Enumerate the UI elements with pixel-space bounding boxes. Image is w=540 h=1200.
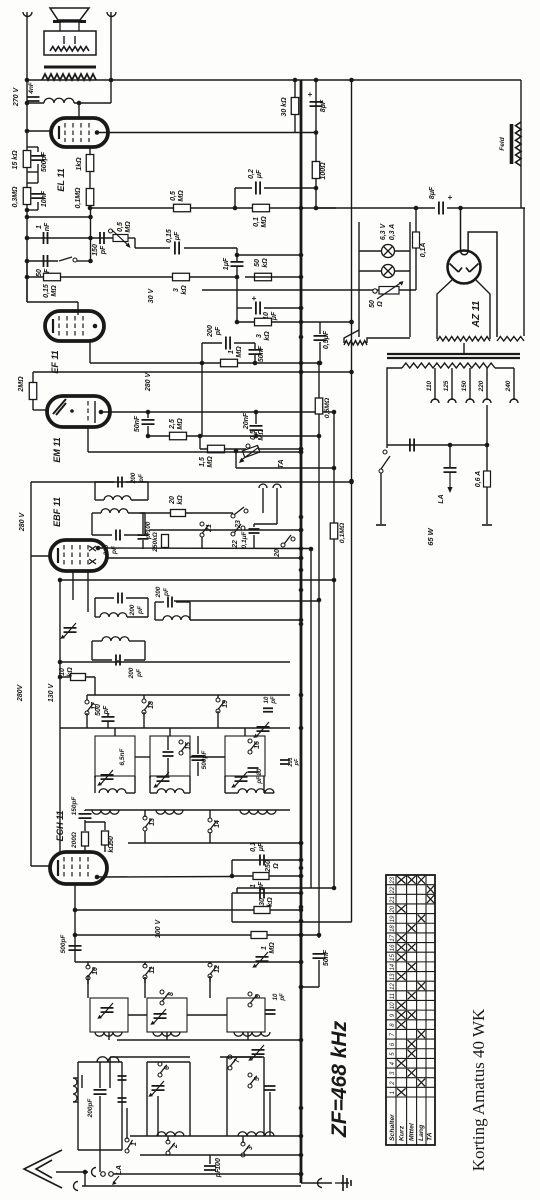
wire 30k up (294, 80, 296, 98)
node bus 558 (299, 556, 304, 561)
output transformer core (44, 66, 96, 69)
trimmer det (256, 957, 269, 961)
node g2bus (299, 206, 304, 211)
wire row277 (27, 276, 237, 278)
wire ant stub (56, 1171, 88, 1173)
wire 30k dn (294, 115, 296, 133)
resistor 100ohm (312, 162, 320, 179)
coupling hook ant (92, 1168, 97, 1177)
wire px202 (201, 343, 203, 436)
tube EBF11 (50, 540, 107, 571)
frame C top2 (227, 1056, 264, 1058)
svg-text:2: 2 (172, 1144, 179, 1149)
wire box1 up (114, 728, 116, 736)
output transformer box (44, 31, 96, 55)
wire g2 line (90, 207, 336, 209)
wire 200 dn (84, 846, 86, 852)
svg-text:ZF=468 kHz: ZF=468 kHz (328, 1020, 351, 1138)
node r363b (253, 361, 258, 366)
node grid EL11 (25, 129, 30, 134)
trimmer ifb (63, 623, 76, 638)
winding heater AZ (497, 337, 524, 342)
ifta u2 topR (128, 512, 145, 514)
svg-text:22: 22 (390, 886, 396, 894)
table switch grid (386, 875, 435, 1145)
svg-text:13: 13 (390, 973, 396, 980)
node mains b (448, 443, 453, 448)
node bus 868 (299, 866, 304, 871)
jack TA (259, 484, 281, 488)
svg-text:kΩ: kΩ (267, 897, 274, 907)
capacitor 6.5nF (163, 752, 174, 756)
resistor 3k b (255, 318, 272, 326)
ifb u1 botL (95, 616, 100, 618)
node bus 695 (299, 693, 304, 698)
wire 65 up (167, 736, 169, 750)
AZ11 anodes (450, 264, 479, 273)
node r449b (234, 449, 239, 454)
resistor 0.5M on B (315, 398, 323, 414)
node bus 843 (299, 841, 304, 846)
resistor 20k (171, 510, 186, 517)
node r412 (332, 410, 337, 415)
table X marks (397, 876, 434, 1096)
capacitor 100pF b (138, 535, 149, 539)
antenna (24, 1150, 62, 1188)
coil osc2 (153, 1032, 180, 1036)
svg-text:kΩ: kΩ (108, 843, 115, 853)
ifb u2 topR (129, 640, 145, 642)
box bandA3 (225, 736, 265, 776)
svg-text:pF: pF (257, 776, 263, 785)
wire 150p dn (84, 820, 86, 831)
node bus 935 (299, 933, 304, 938)
wire choke to pin (74, 102, 111, 104)
fuse 0.1A (413, 232, 420, 248)
svg-text:18: 18 (148, 701, 155, 709)
terminal tap 110 (431, 399, 439, 403)
svg-text:20: 20 (169, 496, 176, 505)
wire prim left (387, 368, 402, 448)
coil anode choke (44, 98, 74, 103)
wire sw2 up (167, 1136, 169, 1141)
wire 100pF up (209, 1155, 211, 1164)
rail A2 (60, 727, 290, 729)
node r888 (332, 886, 337, 891)
trimmer osc1 (101, 1008, 114, 1012)
svg-text:+: + (308, 90, 313, 99)
svg-text:pF: pF (215, 326, 222, 336)
wire mains L (380, 473, 382, 524)
resistor 15k (23, 151, 31, 168)
trimmer ant4 (152, 1086, 165, 1090)
coil ifta1 (104, 496, 131, 500)
tube EL11 (51, 118, 108, 147)
svg-text:μF: μF (258, 842, 265, 852)
wire row888 (237, 887, 334, 889)
wire row248 (135, 247, 170, 249)
switch 23 (231, 514, 235, 518)
svg-text:21: 21 (206, 524, 213, 533)
switch 2 (166, 1140, 170, 1144)
EBF11 diode marks (89, 546, 96, 564)
ifta u2 bot2 (124, 534, 145, 536)
svg-text:pF: pF (271, 696, 277, 705)
wire 1uF up (236, 255, 238, 261)
resistor 50k b (102, 831, 109, 845)
wire row558 (107, 557, 301, 559)
resistor 0.5M h (174, 204, 191, 212)
wire ebf pin dn1 (72, 571, 74, 600)
svg-text:pF: pF (145, 530, 152, 540)
ifb u2 bot2 (124, 659, 145, 661)
tube EBF11 (63, 545, 65, 566)
svg-text:500: 500 (95, 704, 102, 716)
capacitor 150pF (100, 232, 104, 244)
wire lad2 (27, 171, 38, 173)
resistor 0.3M (23, 188, 31, 205)
node D top (349, 78, 354, 83)
wire ant4 line L (110, 1056, 190, 1058)
ifta u1 top2 (126, 481, 148, 483)
wire iftb dn (117, 660, 119, 662)
switch 16 (248, 739, 252, 743)
ifta u2 topL (92, 512, 101, 514)
svg-text:10: 10 (390, 1002, 396, 1009)
resistor 0.1M on C (330, 523, 338, 539)
svg-text:TA: TA (427, 1132, 434, 1141)
wire px27 low (26, 261, 28, 302)
potentiometer 50ohm (379, 287, 399, 295)
capacitor 1uF (231, 262, 244, 266)
svg-text:100: 100 (215, 1158, 222, 1170)
node r570 (332, 578, 337, 583)
svg-text:Schalter: Schalter (389, 1114, 396, 1141)
node r876 (299, 874, 304, 879)
svg-text:+: + (252, 294, 257, 303)
antbox coil link b (73, 1101, 78, 1103)
wire heater line (202, 289, 416, 291)
node r261c (88, 259, 93, 264)
terminal mains L (376, 524, 386, 526)
wire box2 up (169, 728, 171, 736)
wire pot em out (258, 448, 301, 450)
capacitor 200pF d (226, 337, 230, 350)
wire row343 (202, 342, 222, 344)
wire lampbox R (409, 222, 411, 337)
wire 50k link (85, 821, 105, 823)
svg-text:0,5: 0,5 (170, 191, 177, 201)
ifta u2 L (91, 513, 93, 535)
node bus 548.5 (299, 546, 304, 551)
hook bottom (74, 1182, 79, 1191)
svg-text:μF: μF (256, 169, 263, 179)
wire oscbox link2 (187, 1014, 227, 1016)
svg-text:110: 110 (426, 380, 433, 391)
wire 500p dn (107, 722, 109, 728)
wire 500pb up (197, 736, 199, 754)
wire 50nFc up (147, 412, 149, 418)
wire tap 110 (434, 368, 436, 400)
svg-text:65 W: 65 W (426, 527, 435, 545)
node r530 (299, 528, 304, 533)
svg-text:500pF: 500pF (201, 750, 208, 770)
coil ifb1 (100, 613, 127, 617)
wire 200pF ant up (99, 1062, 101, 1088)
node r322c (349, 320, 354, 325)
node busD 322 (349, 320, 354, 325)
node fuse top (414, 206, 419, 211)
wire DC line (316, 207, 435, 209)
node 02a (233, 206, 238, 211)
svg-text:21: 21 (390, 896, 396, 904)
frame C1 R (189, 1062, 191, 1136)
terminal tap 240 (510, 399, 518, 403)
wire 02 h2 (264, 187, 316, 189)
lamp dial 2 redraw (382, 265, 395, 278)
svg-text:30: 30 (259, 898, 266, 906)
wire 150p up (84, 810, 86, 811)
wire osc2 dn (166, 1032, 168, 1040)
svg-text:0,5MΩ: 0,5MΩ (324, 397, 331, 418)
wire 65 dn (167, 758, 169, 776)
svg-text:MΩ: MΩ (178, 190, 185, 202)
wire row255 (237, 254, 301, 256)
svg-text:23: 23 (390, 876, 396, 884)
wire v232 (231, 860, 233, 876)
wire row261b (77, 260, 91, 262)
coil antbox top (97, 1057, 119, 1062)
ifta u1 R (147, 482, 149, 500)
svg-text:4nF: 4nF (28, 81, 35, 95)
wire lad3 (27, 182, 38, 184)
switch 14 (208, 818, 212, 822)
coil A5 (156, 810, 183, 814)
terminal LA pair (101, 1172, 106, 1177)
svg-text:1: 1 (36, 225, 43, 229)
node r277a (25, 275, 30, 280)
ifta u1 botL (95, 499, 104, 501)
wire row922 D (232, 921, 352, 923)
resistor 250ohm (253, 873, 269, 880)
capacitor 0.2uF (256, 182, 260, 195)
switch 5 (248, 1073, 252, 1077)
arrow LA ant (113, 1176, 119, 1183)
wire 20nF up (255, 412, 257, 424)
svg-text:1,5: 1,5 (199, 457, 206, 467)
winding HV (437, 337, 490, 342)
antbox top (78, 1061, 122, 1063)
node r363a (200, 361, 205, 366)
wire lad4b (37, 202, 39, 210)
wire v237 888 (236, 888, 238, 893)
svg-text:19: 19 (222, 700, 229, 708)
speaker terminal right (107, 12, 116, 17)
svg-text:3: 3 (247, 1146, 254, 1150)
ifb u2 R (144, 641, 146, 660)
wire 2M dn (32, 399, 34, 410)
svg-text:20: 20 (390, 905, 396, 913)
capacitor 50nF c (142, 420, 155, 424)
wire matrix v1 (87, 975, 89, 998)
terminal tap 125 (448, 399, 456, 403)
wire lad1 (27, 146, 38, 148)
wire fuse link (486, 445, 488, 471)
wire lamp to winding (344, 330, 359, 343)
svg-text:2,5: 2,5 (169, 419, 176, 430)
resistor 30k b (254, 907, 270, 914)
trimmer ifb (64, 628, 77, 632)
coil ifb2 (102, 637, 129, 641)
switch 8 (160, 990, 164, 994)
svg-text:MΩ: MΩ (207, 456, 214, 468)
svg-text:0,5: 0,5 (250, 430, 257, 440)
ifb u2 topL (92, 640, 102, 642)
node mains a (485, 443, 490, 448)
svg-text:pF: pF (136, 668, 143, 678)
svg-text:20: 20 (274, 549, 281, 558)
wire top supply rail (27, 79, 521, 81)
capacitor ifta1 (118, 477, 122, 488)
node r238a (25, 236, 30, 241)
wire voicecoil to box2 (74, 36, 76, 44)
node bus 590 (299, 588, 304, 593)
frame C2 L (226, 1057, 228, 1136)
tube EF11 (58, 316, 60, 336)
wire sw14 up (209, 810, 211, 818)
wire 500pb dn (197, 762, 199, 776)
node r860 (299, 858, 304, 863)
node 10uF a (235, 275, 240, 280)
ifta u1 L (94, 482, 96, 500)
node r893 (299, 891, 304, 896)
wire row549 (98, 547, 311, 550)
svg-text:200: 200 (129, 604, 136, 616)
svg-text:kΩ: kΩ (264, 331, 271, 341)
node bus 255 (299, 253, 304, 258)
lamp dial 1 redraw (382, 245, 395, 258)
node rA3 (299, 841, 304, 846)
wire matrix v3 (209, 976, 211, 998)
wire 05uF up (319, 322, 321, 334)
wire row363 (90, 362, 319, 364)
antbox wall L (77, 1062, 79, 1150)
rail A1 (87, 694, 290, 696)
node busD 481 (349, 479, 354, 484)
potentiometer 0.5M volume (113, 235, 128, 242)
svg-text:280V: 280V (17, 684, 24, 703)
svg-text:pF: pF (111, 545, 118, 555)
tube EF11 (93, 324, 98, 329)
node bus A anode line (314, 130, 319, 135)
AZ11 heater loop (461, 208, 498, 337)
wire B stub (318, 960, 320, 987)
resistor 3M (173, 273, 190, 281)
wire left bus 33 (30, 482, 32, 857)
svg-text:19: 19 (390, 915, 396, 922)
switch 17 (85, 700, 89, 704)
wire sw18 dn (143, 712, 145, 728)
node r481 (349, 480, 354, 485)
wire osc1 dn (108, 1032, 110, 1040)
svg-text:pF: pF (100, 245, 107, 255)
svg-text:MΩ: MΩ (51, 285, 58, 297)
node bus 1174 (299, 1172, 304, 1177)
switch 3 (241, 1142, 245, 1146)
lamp dial 2 (382, 265, 395, 278)
switch 18 (142, 699, 146, 703)
tube EL11 (95, 130, 100, 135)
svg-text:kΩ: kΩ (177, 495, 184, 505)
node bus 624 (299, 622, 304, 627)
box bandA2 (150, 736, 190, 776)
coil ant rowC 1 (157, 1132, 184, 1136)
wire bus A (8uF/100ohm column) (315, 80, 317, 208)
ground (341, 1175, 351, 1191)
svg-text:0,5: 0,5 (117, 222, 124, 232)
svg-text:Lang: Lang (418, 1124, 425, 1141)
svg-text:EL 11: EL 11 (56, 168, 66, 191)
wire row530 (150, 529, 301, 531)
wire row217 (27, 216, 91, 218)
fuse 0.6A (484, 471, 491, 487)
capacitor 1nF (44, 232, 48, 244)
resistor 0.1M (86, 189, 94, 206)
wire sw19 dn (217, 711, 219, 728)
svg-text:3: 3 (256, 334, 263, 338)
wire sw12 dn (209, 976, 211, 982)
svg-text:6,5nF: 6,5nF (119, 747, 126, 765)
wire mains tap220 (486, 405, 488, 445)
svg-text:30 kΩ: 30 kΩ (281, 97, 288, 117)
tube EF11 (45, 311, 104, 341)
capacitor 10nF (32, 194, 45, 198)
svg-text:16: 16 (254, 741, 261, 749)
coil A2 (157, 789, 184, 793)
node 60b (58, 675, 63, 680)
wire ta to tube (119, 535, 121, 540)
wire bus D (351, 80, 353, 922)
frame C2 R (263, 1057, 265, 1136)
svg-text:10nF: 10nF (41, 190, 48, 207)
wire pot out dn (134, 238, 136, 248)
trimmer ant4 (151, 1081, 164, 1096)
svg-text:50: 50 (36, 269, 43, 277)
node 60c (58, 660, 63, 665)
node r868 (230, 874, 235, 879)
svg-text:Ω: Ω (377, 301, 384, 308)
node 280b (349, 370, 354, 375)
svg-text:200pF: 200pF (87, 1098, 94, 1119)
wire row570 (60, 579, 334, 581)
node ech k 935 (73, 933, 78, 938)
wire 200pF ant dn (99, 1096, 101, 1150)
wire 01uF ta up (253, 524, 255, 527)
svg-text:50: 50 (108, 836, 115, 844)
coilA3 frame2 (263, 776, 265, 793)
capacitor 500pF a2 (102, 717, 115, 721)
output transformer primary winding (50, 47, 89, 52)
ifta u2 bot (92, 534, 112, 536)
switch 10 (86, 965, 90, 969)
ifb3 top a (155, 601, 164, 603)
speaker terminal left (23, 12, 32, 17)
node 270V (25, 101, 30, 106)
resistor 250k (162, 535, 169, 548)
svg-text:6,3 V: 6,3 V (380, 223, 387, 241)
svg-text:kΩ: kΩ (262, 258, 269, 268)
svg-text:10: 10 (264, 696, 270, 703)
